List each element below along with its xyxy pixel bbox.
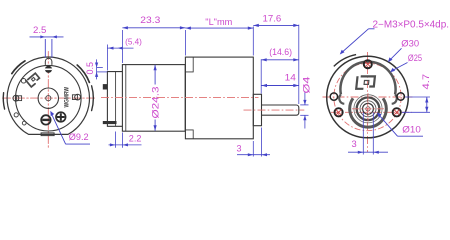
- outer flange circle with bottom flat: [7, 57, 89, 134]
- centerline vertical left view: [47, 52, 49, 148]
- svg-text:3: 3: [352, 139, 357, 149]
- centerline motor axis: [101, 96, 259, 98]
- dimension 3 (boss length): [237, 128, 270, 157]
- svg-text:Ø9.2: Ø9.2: [69, 132, 89, 142]
- dimension 2.2 (cap): [109, 132, 142, 148]
- svg-text:Ø24.3: Ø24.3: [151, 87, 161, 119]
- centerline shaft axis: [244, 109, 305, 111]
- output shaft: [262, 105, 299, 115]
- M3 screw lower-right (with cross): [393, 108, 401, 116]
- svg-text:Ø4: Ø4: [301, 77, 311, 94]
- shaft center dot circle: [366, 107, 370, 111]
- small hole top-left: [21, 79, 26, 84]
- tab arc right: [92, 86, 94, 111]
- cap inner step line: [115, 72, 117, 127]
- top screw (slotted, dark): [45, 66, 52, 73]
- output boss: [253, 94, 261, 125]
- M3 screw lower-left (with cross): [335, 108, 343, 116]
- motor end cap: [107, 72, 122, 127]
- gearbox rear notch top: [185, 57, 193, 72]
- svg-text:2.5: 2.5: [33, 25, 46, 35]
- tab arc left: [3, 93, 4, 109]
- svg-text:17.6: 17.6: [263, 14, 282, 24]
- tab arc top-left right view: [334, 55, 356, 67]
- plain hole right: [397, 93, 404, 100]
- label Ø9.2 with leader: [50, 111, 90, 144]
- dimension 4.7 (shaft offset): [402, 97, 430, 112]
- dimension 2.5 (left view top): [30, 25, 64, 57]
- bottom tab rectangle: [41, 133, 54, 136]
- small hole bottom-left: [22, 121, 26, 125]
- plain hole left: [330, 93, 337, 100]
- svg-text:14: 14: [285, 72, 296, 82]
- center small circle: [46, 96, 51, 101]
- phillips screw bottom right: [56, 112, 66, 122]
- bolt circle Ø25 (red dashed): [334, 63, 401, 130]
- left slot hole: [13, 95, 19, 101]
- tab arc top-left: [12, 61, 25, 74]
- svg-text:2.2: 2.2: [129, 133, 142, 143]
- svg-text:23.3: 23.3: [140, 15, 160, 25]
- dimension 23.3: [122, 28, 185, 63]
- dimension (5.4): [107, 45, 133, 71]
- dimension Ø4 (shaft): [300, 92, 308, 129]
- case C-arc around boss: [350, 98, 387, 127]
- claw hook left: [339, 94, 344, 103]
- dimension (14.6): [260, 59, 262, 93]
- top notch: [45, 58, 52, 64]
- dimension 0.5 (cap step): [97, 59, 108, 79]
- claw hook right: [392, 94, 397, 103]
- svg-text:Ø30: Ø30: [401, 39, 419, 49]
- terminal upper: [103, 84, 108, 89]
- svg-text:(14.6): (14.6): [269, 47, 292, 57]
- shaft inner circle: [360, 101, 376, 117]
- minus screw bottom left: [41, 115, 50, 124]
- svg-text:3: 3: [237, 144, 242, 154]
- center bore circle: [38, 88, 58, 108]
- label window glyph left view: [26, 73, 41, 87]
- motor body: [122, 65, 185, 132]
- svg-text:WGMRW: WGMRW: [64, 87, 70, 108]
- svg-text:Ø10: Ø10: [402, 125, 421, 135]
- flange outer circle: [327, 56, 409, 138]
- dimension "L"mm: [252, 27, 254, 56]
- M3 tapped hole top (with cross): [364, 60, 372, 68]
- right slot hole: [75, 94, 81, 100]
- svg-text:"L"mm: "L"mm: [205, 17, 232, 27]
- dimension Ø24.3 (motor dia): [154, 65, 156, 85]
- centerline vertical flange: [367, 52, 369, 153]
- boss ring Ø10: [357, 98, 380, 121]
- shaft crosshair: [352, 108, 384, 110]
- small hole lower-left: [14, 113, 18, 117]
- svg-text:0.5: 0.5: [85, 62, 95, 75]
- gearbox rear notch bottom: [185, 130, 193, 139]
- svg-text:(5.4): (5.4): [125, 36, 142, 46]
- tab arc top-right: [77, 65, 89, 82]
- dimension 17.6: [298, 25, 300, 104]
- shaft circle Ø4: [363, 103, 374, 114]
- svg-text:Ø25: Ø25: [408, 53, 422, 63]
- svg-text:2−M3×P0.5×4dp.: 2−M3×P0.5×4dp.: [373, 19, 450, 30]
- terminal lower: [103, 121, 117, 124]
- motor crimp line: [125, 65, 127, 132]
- inner flange circle: [16, 65, 82, 131]
- centerline horizontal flange: [323, 96, 413, 98]
- label window glyph right view: [356, 76, 375, 89]
- dimension 14: [262, 85, 299, 87]
- thin circle inside C-arc: [354, 95, 382, 123]
- svg-text:4.7: 4.7: [421, 74, 431, 90]
- gearbox case: [185, 57, 253, 139]
- dimension 3 (right view, shaft): [348, 113, 388, 155]
- centerline M3 screws row: [331, 111, 412, 113]
- inner case big arc: [340, 62, 395, 95]
- centerline horizontal left view: [3, 97, 97, 99]
